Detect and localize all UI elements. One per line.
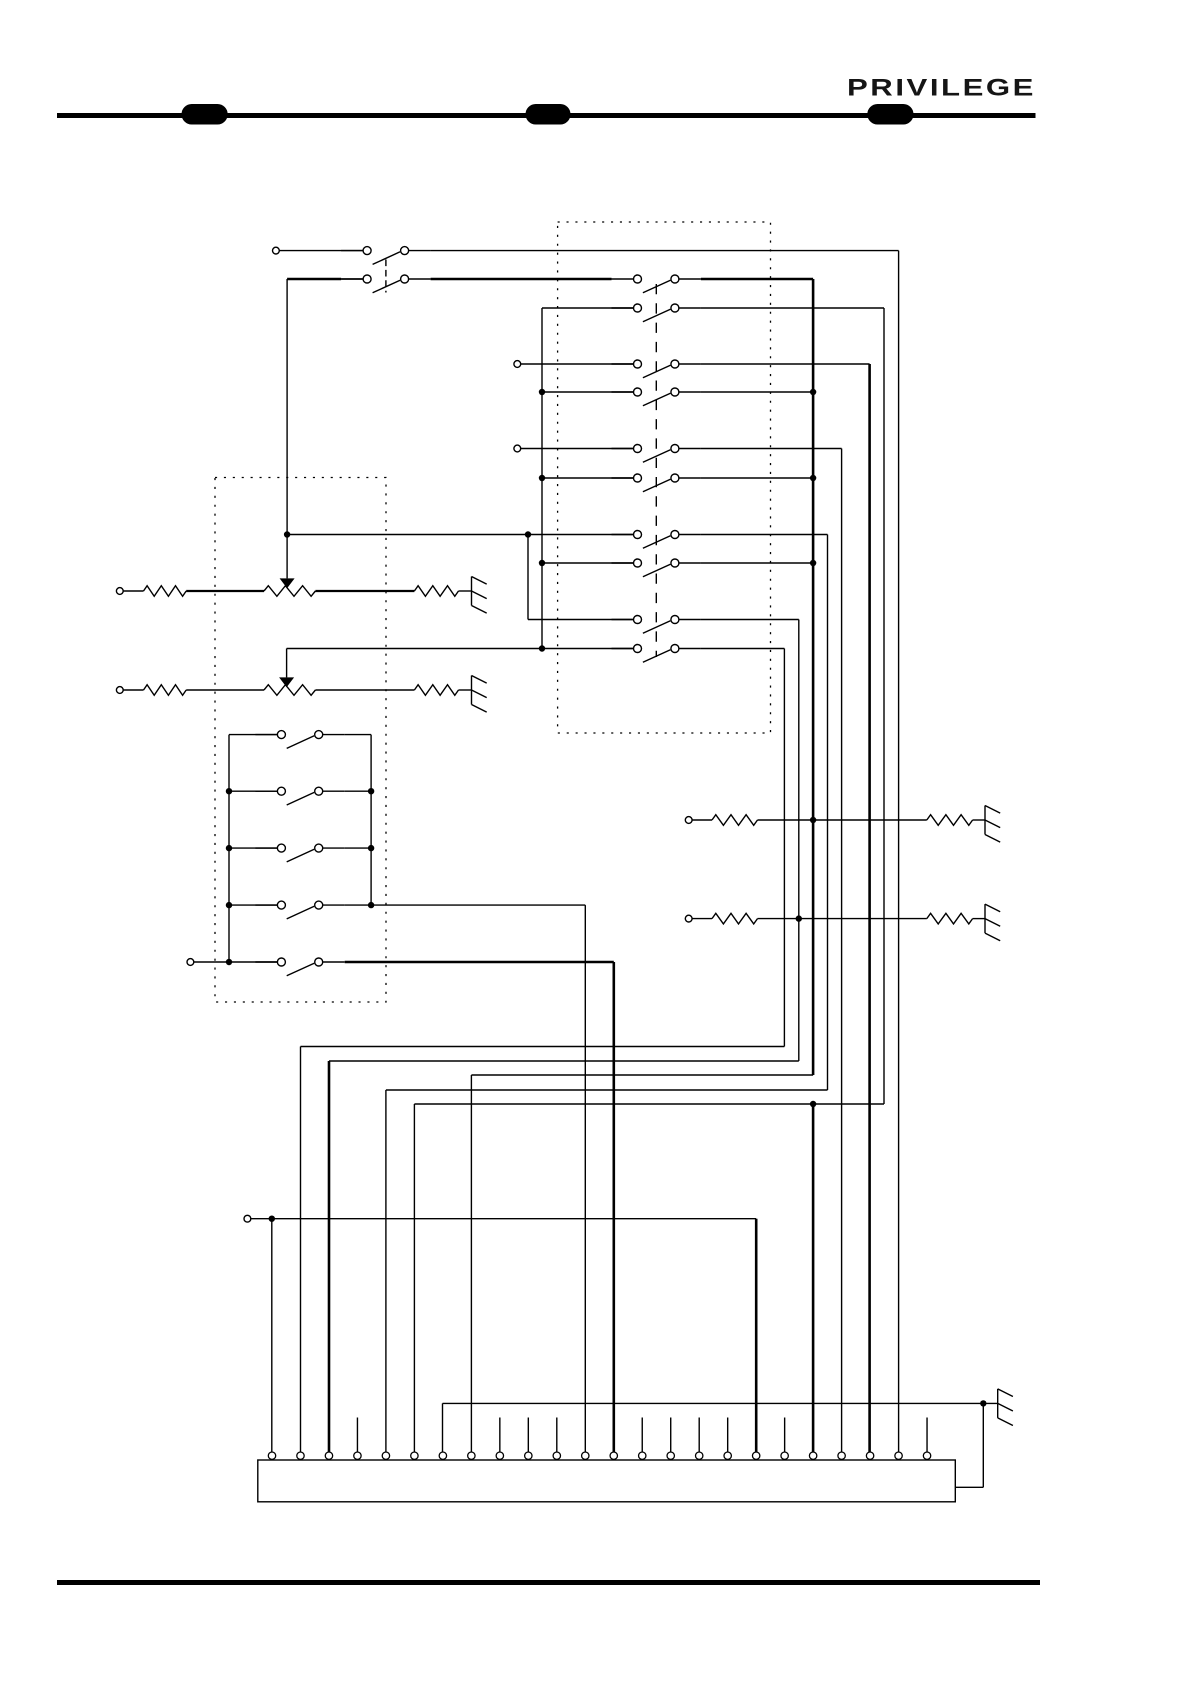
wire S2c output drop to pin 22 (bold) — [868, 364, 871, 1452]
node junction bus/S2d — [539, 389, 545, 395]
wire elbow S2g-drop to pin 5 — [386, 1089, 828, 1091]
wire pin 6 drop — [413, 1104, 415, 1452]
wire S1a output to node A — [431, 250, 899, 252]
wire riser to potentiometer VR1 wiper — [286, 279, 288, 578]
wire pin 5 drop — [385, 1090, 387, 1452]
connector CN1 pin 21 — [838, 1452, 845, 1459]
node junction busL/S3b — [226, 788, 232, 794]
wire pin 8 drop — [470, 1075, 472, 1452]
connector CN1 pin 24 — [923, 1418, 930, 1460]
switch S2a — [612, 275, 701, 293]
potentiometer VR2 track — [264, 685, 315, 696]
switch S2c — [612, 360, 701, 378]
wire VR2 to R4 — [315, 689, 414, 691]
node junction VR1-wire branch — [525, 531, 531, 537]
wire bus L to S3a — [229, 734, 277, 736]
wire S2g output drop — [827, 535, 829, 1091]
gang link S2 (dashed) — [655, 284, 657, 657]
wire pin 20 drop (bold) — [812, 1104, 815, 1452]
connector CN1 pin 20 — [809, 1452, 816, 1459]
connector CN1 pin 10 — [525, 1418, 532, 1460]
wire S3d output to pin 12 drop — [371, 904, 585, 906]
node T6 input terminal — [187, 959, 194, 966]
switch S3c — [255, 844, 344, 862]
connector CN1 pin 14 — [639, 1418, 646, 1460]
header pill 1 — [182, 104, 228, 125]
wire S2d output to bus B — [701, 391, 813, 393]
page header rule — [57, 113, 1036, 118]
node junction busR/S3d — [368, 902, 374, 908]
wire S2b output drop — [883, 308, 885, 1104]
wire bus L to S3c — [229, 847, 277, 849]
resistor R5 — [712, 815, 758, 826]
left bank bus L (vertical) — [228, 735, 230, 962]
switch S2i — [612, 616, 701, 634]
node junction VR2-wire/bus — [539, 645, 545, 651]
node junction row/S2i drop — [796, 915, 802, 921]
connector CN1 pin 12 — [582, 1452, 589, 1459]
wire node A down to pin 23 — [898, 251, 900, 1452]
wire S3d to bus R — [345, 904, 371, 906]
switch S1a — [341, 247, 431, 265]
wire R2 to ground — [459, 590, 472, 592]
switch S3b — [255, 787, 344, 805]
header pill 2 — [526, 104, 571, 125]
wire T3 to S2e — [521, 448, 634, 450]
node junction S2h/bus B — [810, 560, 816, 566]
switch S3a — [255, 731, 344, 749]
wire bus to S2f — [542, 477, 634, 479]
potentiometer VR1 wiper arrow — [280, 578, 295, 588]
wire S3b to bus R — [345, 790, 371, 792]
wire T6 to S3e — [194, 961, 278, 963]
wire elbow S2b-drop to pin 6 — [414, 1103, 884, 1105]
node junction elbow/pin 20 drop — [810, 1101, 816, 1107]
dotted enclosure: left control block — [215, 478, 386, 1003]
switch S2j — [612, 645, 701, 663]
wire R6 to ground — [973, 819, 985, 821]
wire VR2 wiper riser — [286, 649, 288, 678]
ground GND4 — [985, 904, 1000, 941]
wire R3 to VR2 — [186, 689, 264, 691]
wire S2e output — [701, 448, 842, 450]
node junction T9/pin 1 drop — [269, 1216, 275, 1222]
potentiometer VR2 wiper arrow — [279, 677, 294, 687]
potentiometer VR1 track — [264, 586, 315, 597]
wire R7 across buses — [758, 918, 927, 920]
wire S2j output drop — [783, 649, 785, 1047]
wire T9 across to pin 18 drop — [251, 1218, 756, 1220]
wire VR1 wiper to S2g — [287, 534, 633, 536]
wire S3c to bus R — [345, 847, 371, 849]
ground GND1 — [472, 577, 487, 614]
wire S2h output to bus B — [701, 562, 813, 564]
switch S3e — [255, 958, 344, 976]
resistor R2 — [414, 586, 458, 597]
node T7 input terminal — [685, 817, 692, 824]
connector CN1 body — [258, 1460, 956, 1502]
connector CN1 pin 4 — [354, 1418, 361, 1460]
wire S2j output — [701, 648, 785, 650]
node junction busL/S3e — [226, 959, 232, 965]
wire S1b left riser (bold) — [287, 278, 341, 281]
connector CN1 pin 3 — [325, 1452, 332, 1459]
connector CN1 pin 19 — [781, 1418, 788, 1460]
node T5 input terminal — [116, 687, 123, 694]
node T9 input terminal — [244, 1215, 251, 1222]
wire ground rail down — [982, 1403, 984, 1487]
connector CN1 pin 8 — [468, 1452, 475, 1459]
page footer rule — [57, 1580, 1040, 1585]
wire elbow S2j-drop to pin 2 — [301, 1046, 785, 1048]
wire S2c output — [701, 363, 870, 365]
wire S3e output drop to pin 13 (bold) — [612, 962, 615, 1452]
wire branch down to S2i row — [527, 535, 529, 620]
wire drop to pin 12 — [584, 905, 586, 1452]
wire T8 to R7 — [692, 918, 712, 920]
ground GND5 — [998, 1389, 1013, 1426]
bus wire from VR2 wiper (vertical, feeds S2b/S2d/S2f/S2h) — [541, 308, 543, 649]
connector CN1 pin 2 — [297, 1452, 304, 1459]
wire S2a output (bold) — [701, 278, 813, 281]
node junction busR/S3b — [368, 788, 374, 794]
connector CN1 pin 7 — [439, 1452, 446, 1459]
wire pin 7 to ground rail — [443, 1402, 998, 1404]
dotted enclosure: steering-column switch block — [558, 222, 771, 733]
wire bus L to S3d — [229, 904, 277, 906]
wire S2e output drop to pin 21 — [841, 449, 843, 1453]
node junction busR/S3c — [368, 845, 374, 851]
gang link S1 (dashed) — [385, 260, 387, 293]
wire pin 2 drop — [300, 1047, 302, 1453]
ground GND3 — [985, 806, 1000, 843]
connector CN1 pin 23 — [895, 1452, 902, 1459]
wire S2f output to bus B — [701, 477, 813, 479]
node junction bus/S2h — [539, 560, 545, 566]
connector CN1 pin 16 — [696, 1418, 703, 1460]
node junction row/bus B — [810, 817, 816, 823]
wire R5 across buses — [758, 819, 927, 821]
wire S2i output drop — [798, 620, 800, 1062]
svg-text:PRIVILEGE: PRIVILEGE — [847, 75, 1036, 102]
wire bus L to S3b — [229, 790, 277, 792]
wire S1b left lead — [341, 278, 363, 280]
node junction S2f/bus B — [810, 475, 816, 481]
node T2 input terminal — [514, 361, 521, 368]
node junction busL/S3d — [226, 902, 232, 908]
wire elbow bus B to pin 8 — [471, 1074, 813, 1076]
wire T1 to S1a — [279, 250, 363, 252]
connector CN1 pin 17 — [724, 1418, 731, 1460]
switch S1b — [341, 275, 431, 293]
wire pin 7 drop — [442, 1403, 444, 1452]
node junction bus/S2f — [539, 475, 545, 481]
resistor R6 — [927, 815, 973, 826]
node junction VR1 riser branch — [284, 531, 290, 537]
connector CN1 pin 18 — [752, 1452, 759, 1459]
node T4 input terminal — [116, 588, 123, 595]
wire pin 3 drop (bold) — [328, 1061, 331, 1452]
connector CN1 pin 13 — [610, 1452, 617, 1459]
wire bus to S2b — [542, 307, 634, 309]
connector CN1 pin 9 — [496, 1418, 503, 1460]
wire ground rail to connector CN1 — [955, 1486, 983, 1488]
wire bus to S2h — [542, 562, 634, 564]
resistor R3 — [144, 685, 187, 696]
connector CN1 pin 15 — [667, 1418, 674, 1460]
wire S2g output — [701, 534, 828, 536]
switch S2d — [612, 388, 701, 406]
resistor R1 — [144, 586, 187, 597]
switch S2f — [612, 474, 701, 492]
wire branch to S2i — [528, 619, 634, 621]
node T3 input terminal — [514, 445, 521, 452]
resistor R7 — [712, 913, 758, 924]
wire S3a to bus R — [345, 734, 371, 736]
wire R8 to ground — [973, 918, 985, 920]
wire elbow S2i-drop to pin 3 — [329, 1060, 799, 1062]
connector CN1 pin 1 — [268, 1452, 275, 1459]
switch S2e — [612, 445, 701, 463]
wire T4 to R1 — [123, 590, 143, 592]
connector CN1 pin 6 — [411, 1452, 418, 1459]
connector CN1 pin 5 — [382, 1452, 389, 1459]
node junction ground rail — [980, 1400, 986, 1406]
wire VR1 to R2 (bold) — [315, 590, 414, 592]
ground GND2 — [472, 676, 487, 713]
connector CN1 pin 11 — [553, 1418, 560, 1460]
wire bus to S2d — [542, 391, 634, 393]
wire S2b output — [701, 307, 884, 309]
switch S3d — [255, 901, 344, 919]
wire R4 to ground — [459, 689, 472, 691]
wire pin 1 drop — [271, 1219, 273, 1452]
node T8 input terminal — [685, 915, 692, 922]
wire S1b output (bold) — [431, 278, 612, 281]
wire pin 18 drop (bold) — [755, 1219, 758, 1452]
node junction S2d/bus B — [810, 389, 816, 395]
connector CN1 pin 22 — [866, 1452, 873, 1459]
switch S2g — [612, 531, 701, 549]
wire VR2 wiper to S2j — [287, 648, 634, 650]
wire S2i output — [701, 619, 799, 621]
left bank bus R (vertical) — [370, 735, 372, 906]
wire S3e output (bold) — [345, 961, 614, 964]
resistor R8 — [927, 913, 973, 924]
wire T2 to S2c — [521, 363, 634, 365]
header pill 3 — [867, 104, 913, 125]
switch S2h — [612, 559, 701, 577]
switch S2b — [612, 304, 701, 322]
wire R1 to VR1 (bold) — [186, 590, 264, 592]
wire T5 to R3 — [123, 689, 143, 691]
node junction busL/S3c — [226, 845, 232, 851]
bus B (bold vertical trunk) — [812, 279, 815, 1075]
wire T7 to R5 — [692, 819, 712, 821]
node T1 input terminal — [273, 247, 280, 254]
resistor R4 — [414, 685, 458, 696]
